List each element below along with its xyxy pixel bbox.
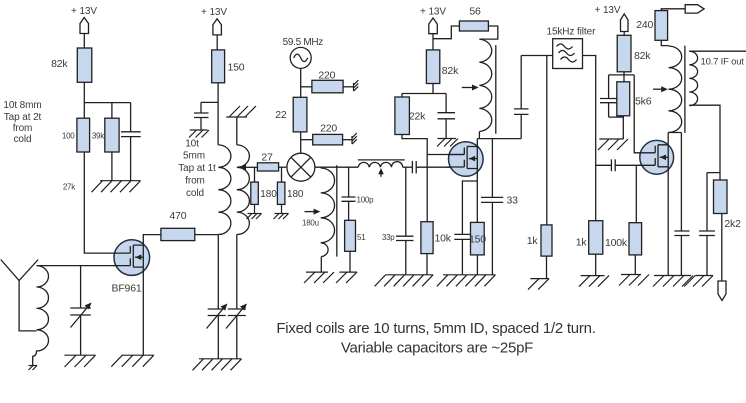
resistor 82k Q2 [426,50,459,84]
wire 1k to ground [546,256,548,279]
ground 1k [528,279,549,290]
ground 180b [274,204,289,219]
wire supply2 to R 150 [216,35,218,50]
ground 5k6 [598,139,628,150]
wire tank primary bottom to VC2 [217,235,219,310]
connector audio out [718,281,726,301]
power +13V supply 1 [71,6,97,34]
ground 180u [304,272,334,283]
ground 1k2 [579,276,609,287]
svg-text:2k2: 2k2 [724,218,741,230]
mixer [287,153,315,181]
power +13V supply 2 [201,7,227,35]
ground source Q1 [111,355,154,367]
svg-text:82k: 82k [51,58,68,70]
ground Q3 source area [653,276,693,287]
wire supply to 82k node [432,34,434,50]
capacitor series gate Q3 [596,159,656,171]
wire inductor to cap [403,166,413,168]
wire mixer IF output [315,166,358,168]
svg-text:33: 33 [507,195,519,207]
resistor 22k [395,94,426,135]
wire secondary bottom [689,105,720,231]
ground 180a [247,204,262,219]
svg-text:Fixed coils are 10 turns, 5mm: Fixed coils are 10 turns, 5mm ID, spaced… [276,320,595,337]
svg-text:82k: 82k [442,65,459,77]
svg-text:5mm: 5mm [183,151,205,162]
ground secondary return [684,276,713,287]
resistor 100 [62,118,90,152]
wire source Q3 [667,167,669,276]
variable capacitor VC3 [226,304,247,359]
svg-text:240: 240 [636,19,653,31]
capacitor 33p [382,167,414,275]
wire gate2 Q1 [37,265,131,267]
note coil 2 winding [178,139,216,200]
svg-text:+ 13V: + 13V [71,6,97,17]
svg-text:220: 220 [320,122,337,134]
connector supply out [685,5,704,13]
wire bias to gate1 Q3 [634,75,655,153]
wire bias to gate1 Q1 [84,152,130,253]
svg-text:Tap at 2t: Tap at 2t [4,112,42,123]
svg-text:82k: 82k [634,50,651,62]
variable capacitor VC1 [70,266,91,356]
transistor Q3 [639,140,674,174]
wire tank decoupling branch [201,101,218,103]
svg-text:180: 180 [287,189,304,200]
wire node to 56 [433,26,459,39]
wire 150b to ground [476,255,478,275]
capacitor bias bypass Q2 [438,94,456,139]
wire drain node Q3 [668,133,681,145]
wire source Q2 [462,169,477,235]
wire 1k tap [546,56,548,225]
inductor antenna coil [33,266,49,366]
svg-text:+ 13V: + 13V [420,7,446,18]
wire secondary top stem [236,117,238,145]
wire supply1 to R 82k [83,34,85,49]
svg-text:100p: 100p [357,195,375,204]
wire gate2 to 100k [635,165,637,222]
svg-text:180: 180 [260,189,277,200]
ground bias bypass Q2 [437,139,458,147]
resistor 150 feed [212,50,245,83]
svg-text:22: 22 [275,109,287,121]
inductor 180u [302,165,337,256]
svg-text:15kHz filter: 15kHz filter [546,27,596,38]
inductor IF transformer primary [653,46,682,132]
wire bias bar [402,93,446,95]
ground 33p 10k [375,275,434,287]
resistor 22 [275,97,307,132]
ground antenna coil [29,366,38,371]
power +13V supply Q3 [595,5,628,31]
wire 56 to drain coil [479,26,497,39]
resistor 180 b [277,182,304,204]
svg-text:27k: 27k [63,183,76,192]
wire 2k2 to connector [721,214,723,282]
ground 51 [336,272,357,283]
svg-text:22k: 22k [409,111,426,123]
ground VC1 [64,355,95,367]
svg-text:150: 150 [469,234,486,246]
inductor IF horizontal [358,160,405,177]
capacitor tank decoupling [194,102,209,130]
resistor 39k [92,118,119,152]
svg-text:10k: 10k [435,233,452,245]
wire 10k to ground [426,254,428,275]
wire 82k to bias bar [432,84,434,94]
inductor IF transformer secondary [689,51,697,105]
svg-text:1k: 1k [576,237,588,249]
ground Q2 source area [437,275,496,287]
resistor 1k filter input [527,225,552,256]
inductor tank primary [218,145,231,235]
capacitor source bypass Q2 [454,234,470,274]
ground tank decoupling [189,130,209,138]
wire 220a to chassis [343,86,353,88]
wire 220b to chassis [343,139,352,141]
wire 82k to 5k6 node [609,72,635,82]
capacitor series IF coupling [412,161,464,173]
svg-text:10t 8mm: 10t 8mm [3,100,41,111]
transistor Q1 BF961 [112,240,150,295]
svg-text:BF961: BF961 [112,283,142,295]
wire gate1 to 10k [426,155,428,222]
filter 15kHz [546,27,596,69]
resistor 82k [51,48,92,82]
wire 82k to bias node A [83,82,85,118]
wire 100k to ground [634,255,636,275]
wire tank secondary bottom to VC3 [236,235,238,310]
resistor 10k [421,222,452,254]
svg-text:180u: 180u [302,219,319,228]
wire 180u to ground [320,257,322,273]
resistor 5k6 [617,82,652,116]
wire 1k2 to ground [595,254,597,275]
svg-text:27: 27 [261,152,273,164]
svg-text:from: from [185,176,205,187]
resistor 51 [345,220,367,251]
svg-text:51: 51 [357,233,366,242]
resistor 180 a [251,182,277,204]
capacitor secondary return [699,231,715,276]
resistor 82k Q3 [617,35,651,72]
wire to 220b [301,139,313,141]
svg-text:+ 13V: + 13V [595,5,621,16]
capacitor 5k6 bypass [600,75,617,117]
wire stub 180a [254,167,256,182]
ground chassis 220b [352,133,357,144]
capacitor coupling to filter [514,56,529,139]
svg-text:100k: 100k [605,237,628,249]
svg-text:220: 220 [318,69,335,81]
wire 39k branch [111,103,113,119]
svg-text:59.5 MHz: 59.5 MHz [283,37,324,48]
wire 39k to ground [111,152,113,181]
ground VC2 VC3 [193,359,242,371]
ground chassis 220a [354,80,359,91]
svg-text:1k: 1k [527,235,539,247]
wire 5k6 to ground [609,116,624,139]
wire oscillator to mixer [300,68,302,153]
wire drain node Q2 [477,132,521,147]
resistor 220 a [312,69,343,93]
ground 100k [619,275,649,286]
capacitor 33 [481,139,518,275]
transistor Q2 [448,142,484,177]
variable capacitor VC2 [207,304,228,359]
wire supply to 82k Q3 [623,32,625,36]
svg-text:10t: 10t [185,139,199,150]
note coil 1 winding [3,100,41,145]
inductor drain tank Q2 [462,39,496,134]
wire tap arrow to mixer [239,164,257,170]
svg-text:10.7 IF out: 10.7 IF out [701,57,745,68]
wire filter output [583,56,596,221]
svg-text:39k: 39k [92,132,105,141]
antenna [1,260,39,331]
oscillator 59.5 MHz [283,37,324,68]
resistor 27 [257,152,278,172]
ground inverted tank secondary top [226,106,256,117]
svg-text:+ 13V: + 13V [201,7,227,18]
resistor 150 source Q2 [469,222,486,255]
core IF transformer [684,46,686,133]
resistor 1k filter output [576,221,603,255]
svg-text:33p: 33p [382,233,395,242]
wire 150 to tank top [217,83,219,145]
wire to 220a [301,86,312,88]
svg-text:cold: cold [14,134,32,145]
resistor 56 [459,6,488,32]
resistor 470 [161,210,195,241]
wire source Q1 [142,267,144,355]
svg-text:Variable capacitors are ~25pF: Variable capacitors are ~25pF [341,340,533,357]
wire 240 to primary top [661,40,668,45]
wire 27 to mixer [279,166,287,168]
resistor 2k2 [714,180,742,230]
resistor 240 [636,11,667,41]
ground bias [92,181,141,193]
svg-text:470: 470 [170,210,187,222]
svg-text:cold: cold [186,188,204,199]
resistor 100k [605,223,642,255]
wire 22k to gate1 Q2 [402,135,464,155]
svg-text:56: 56 [469,6,481,18]
capacitor 100p [342,167,375,220]
wire IF out [689,50,746,52]
svg-text:150: 150 [228,62,245,74]
svg-text:5k6: 5k6 [635,96,652,108]
wire 51 to ground [349,251,351,272]
wire stub 180b [281,167,283,182]
wire 470 to tank [195,234,219,236]
svg-text:Tap at 1t: Tap at 1t [178,163,216,174]
svg-text:from: from [13,123,33,134]
wire node A horizontal [84,102,130,104]
capacitor bias bypass [121,103,141,181]
inductor tank secondary [237,145,250,235]
power +13V supply Q2 [420,7,446,34]
wire 240 top to connector [661,9,685,11]
capacitor drain bypass Q3 [674,133,689,276]
wire filter input [521,55,553,57]
wire drain Q1 [143,235,161,246]
resistor 220 b [313,122,343,145]
svg-text:100: 100 [62,132,75,141]
